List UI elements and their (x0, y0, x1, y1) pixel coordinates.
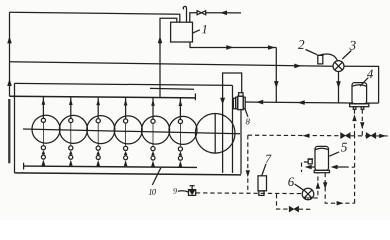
wire tank riser from manifold (160, 18, 177, 97)
arrow down on outlet drop (274, 81, 279, 88)
pump mounting plate (233, 98, 235, 109)
label 4 leader (360, 78, 368, 87)
cylinders center line (23, 129, 240, 134)
heater side fitting (308, 159, 312, 164)
cooler 4 body (352, 83, 367, 104)
engine block right edge (232, 85, 234, 172)
label 3 (350, 41, 356, 50)
sensor 2 body (318, 55, 323, 64)
wire fill line from outside (205, 12, 241, 14)
arrow right on suction line (294, 64, 301, 69)
flywheel circle (195, 114, 235, 154)
arrow down on cooler right leg (360, 122, 364, 129)
arrow left into heater right port (331, 165, 338, 169)
arrow right on heater drain run (337, 201, 344, 205)
label 2 (298, 40, 304, 49)
label 4 (367, 70, 373, 78)
dashed bilge branch (277, 194, 290, 209)
label 9 leader (178, 191, 189, 192)
arrow down on engine drain riser (246, 170, 250, 177)
pump 6 circle (302, 188, 314, 200)
arrow left on pump suction (298, 100, 305, 105)
heavy vertical scan bar left (8, 99, 10, 163)
wire vapor header line (150, 87, 194, 90)
dashed pump6 discharge (313, 173, 318, 198)
bowtie valve on manifold right (366, 133, 376, 139)
label 6 leader (295, 184, 304, 190)
label 1 leader (193, 30, 200, 33)
arrow down on heater outlet (323, 182, 327, 189)
bowtie valve on bilge branch (289, 206, 298, 212)
wire pump suction line (245, 102, 352, 103)
label 6 (288, 177, 294, 186)
label 7 leader (262, 164, 266, 176)
label 1 (202, 25, 206, 33)
cooler 4 base (350, 104, 369, 107)
filter 7 body (258, 176, 267, 191)
wire thermostat bypass drop (338, 72, 340, 103)
label 2 leader (306, 50, 317, 55)
dashed branch to heater right port (345, 166, 355, 168)
inlet downpipe with arrow (223, 73, 242, 173)
label 7 (266, 155, 272, 163)
heater 5 base (314, 170, 329, 172)
wall below pump (240, 109, 242, 174)
bowtie valve on manifold left (341, 133, 351, 139)
arrow down on bypass (336, 81, 341, 88)
label 10 leader (152, 168, 161, 185)
arrow left near pump 8 (256, 100, 263, 105)
arrow right before outlet corner (268, 45, 275, 50)
arrow up on left riser lower (7, 79, 12, 86)
wire left riser (9, 12, 11, 96)
wire right riser from thermostat (344, 66, 379, 103)
label 3 leader (342, 51, 351, 60)
wire outlet manifold top (10, 96, 196, 98)
wire suction line to thermostat (10, 62, 333, 66)
arrow up on cooler left leg (352, 114, 356, 121)
drain valve 9 (189, 190, 196, 196)
vent pipe with curl (183, 6, 186, 22)
cylinder group (32, 97, 197, 167)
wire cooler to right riser (367, 102, 379, 104)
dashed bottom drain line (196, 192, 302, 195)
arrow right on dashed manifold end (379, 134, 386, 138)
label 10 (149, 189, 152, 195)
label 10 (152, 189, 156, 195)
label 9 (173, 188, 177, 194)
dashed fill-drain manifold (248, 134, 341, 137)
label 8 (246, 118, 250, 124)
wire tank outlet vertical drop (275, 48, 277, 103)
arrow left on fill line (220, 11, 227, 16)
engine block top edge (15, 83, 233, 85)
dashed heater fitting line (302, 162, 309, 172)
engine block left edge (14, 83, 16, 172)
dashed cooler right leg (361, 110, 363, 136)
cylinder 1 circle (32, 115, 60, 143)
capillary tube to thermostat (320, 54, 338, 60)
arrow down on inlet downpipe (220, 98, 225, 105)
expansion tank 1 (171, 22, 193, 42)
dashed heater outlet down and right (325, 173, 354, 203)
label 5 leader (329, 152, 339, 156)
arrow up on left riser upper (7, 36, 12, 43)
wire top expansion line (10, 12, 180, 22)
drain manifold 10 (24, 166, 197, 167)
thermostat 3 circle (333, 61, 344, 72)
label 8 leader (245, 108, 248, 117)
filling valve bowtie (197, 11, 206, 15)
wire tank fill branch (190, 13, 197, 23)
cap of outlet manifold (194, 93, 196, 100)
flywheel vertical diameter (214, 114, 216, 153)
arrow up on tank riser (158, 36, 163, 43)
arrow right on tank outlet (226, 45, 233, 50)
wire tank outlet down (190, 42, 276, 47)
engine block bottom edge (15, 173, 242, 175)
dashed engine drain riser (247, 135, 249, 194)
cap of drain manifold (23, 163, 25, 170)
pump 8 body (236, 93, 246, 110)
heater 5 body (315, 146, 329, 170)
arrow left out of heater left port (305, 165, 312, 169)
dashed circuit (196, 110, 390, 210)
arrow up on pump6 discharge (316, 182, 320, 189)
dashed cooler left leg (354, 110, 356, 136)
label 5 (341, 143, 347, 152)
dashed heater riser to manifold (354, 136, 356, 203)
arrow left on dashed manifold (303, 134, 310, 138)
